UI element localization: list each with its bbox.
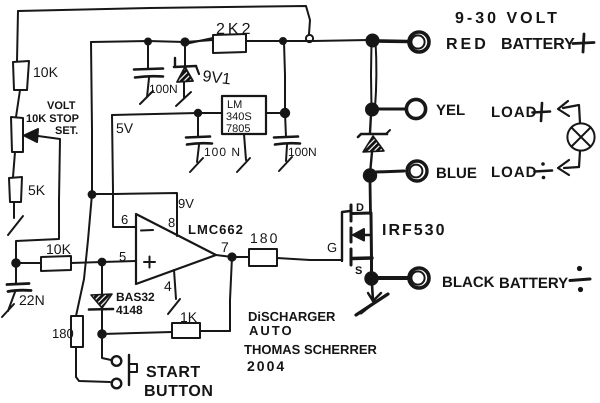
capacitor C 22N tail bbox=[8, 292, 15, 311]
svg-text:10K: 10K bbox=[33, 64, 59, 80]
capacitor C 100N (right) lead bbox=[285, 113, 286, 137]
capacitor C 100N (mid) plates bbox=[186, 137, 210, 138]
svg-text:1K: 1K bbox=[180, 309, 198, 325]
svg-text:VOLT: VOLT bbox=[47, 100, 76, 112]
svg-text:6: 6 bbox=[121, 212, 128, 227]
capacitor C 100N (right) tail bbox=[286, 145, 287, 161]
slash tail under 5K bbox=[8, 216, 23, 235]
svg-text:8: 8 bbox=[168, 215, 175, 230]
wire left 9V vertical bbox=[76, 42, 92, 316]
svg-text:4148: 4148 bbox=[116, 303, 143, 317]
diode D (bus) symbol bbox=[358, 134, 387, 137]
svg-text:2004: 2004 bbox=[247, 358, 286, 374]
capacitor C 100N (mid) lead bbox=[197, 113, 199, 137]
regulator U LM340S box bbox=[222, 96, 266, 134]
svg-text:IRF530: IRF530 bbox=[382, 222, 446, 239]
connector BLUE bbox=[407, 161, 427, 181]
start button actuator bbox=[128, 355, 130, 385]
connector RED bbox=[409, 32, 429, 52]
mosfet channel bars bbox=[350, 205, 353, 221]
wire gate vertical bbox=[342, 211, 350, 261]
resistor R 1K bbox=[172, 323, 200, 338]
start button terminal upper bbox=[112, 356, 122, 366]
wire bus top junction to RED bbox=[367, 35, 379, 47]
start button terminal lower bbox=[112, 379, 122, 389]
mosfet drain stub bbox=[352, 212, 371, 216]
wire 1K right lead bbox=[200, 330, 230, 332]
divide sign LOAD row bbox=[535, 171, 553, 172]
capacitor C 22N lead bbox=[15, 263, 17, 284]
node loop at 2K2 rail bbox=[306, 35, 313, 42]
svg-text:RED: RED bbox=[446, 36, 489, 53]
wire stub BLACK bbox=[377, 276, 408, 280]
svg-text:BLACK: BLACK bbox=[442, 274, 495, 291]
node dot BAS32 branch bbox=[99, 259, 106, 266]
wire 10K to pot bbox=[16, 90, 20, 117]
wire LM gnd lead bbox=[244, 134, 246, 160]
wire 9V branch to op-amp pin8 bbox=[92, 193, 177, 236]
svg-text:S: S bbox=[355, 265, 362, 277]
svg-text:LM: LM bbox=[227, 99, 242, 111]
svg-text:180: 180 bbox=[250, 230, 279, 246]
wire stub YEL bbox=[377, 108, 406, 111]
svg-text:BATTERY: BATTERY bbox=[501, 36, 575, 53]
node dot 9V branch bbox=[89, 191, 96, 198]
wire left outer vertical to 10K bbox=[17, 11, 18, 61]
svg-text:D: D bbox=[356, 202, 364, 214]
mosfet source stub bbox=[352, 256, 372, 260]
resistor R 180 (gate) bbox=[249, 249, 277, 266]
diode D BAS32 symbol bbox=[91, 294, 112, 308]
svg-text:START: START bbox=[146, 364, 201, 381]
pot wiper arrow bbox=[26, 135, 38, 136]
svg-text:10K: 10K bbox=[46, 241, 72, 257]
node dot BLUE bbox=[364, 169, 376, 181]
node dot x283 bbox=[280, 38, 286, 44]
svg-text:G: G bbox=[327, 240, 337, 255]
lamp arrow upper bbox=[563, 105, 580, 123]
plus sign LOAD row bbox=[533, 103, 551, 121]
node dot x185 bbox=[181, 38, 188, 45]
diode D BAS32 lead bbox=[101, 262, 103, 294]
svg-text:5: 5 bbox=[119, 249, 126, 264]
svg-text:9-30 VOLT: 9-30 VOLT bbox=[455, 10, 560, 27]
svg-text:BLUE: BLUE bbox=[436, 165, 477, 182]
node dot output bbox=[228, 253, 235, 260]
wire 2K2 right to bus bbox=[246, 40, 369, 41]
svg-text:YEL: YEL bbox=[436, 102, 465, 119]
svg-text:AUTO: AUTO bbox=[249, 323, 294, 338]
svg-text:4: 4 bbox=[164, 278, 172, 294]
capacitor C 100N (mid) tail bbox=[197, 145, 199, 162]
svg-text:9V1: 9V1 bbox=[202, 68, 232, 88]
svg-text:7805: 7805 bbox=[226, 123, 250, 135]
capacitor C 100N (first) plates bbox=[134, 69, 163, 70]
wire vertical 9V to LM out bbox=[284, 42, 285, 113]
wire mosfet channel to source node bbox=[370, 214, 374, 278]
svg-text:BUTTON: BUTTON bbox=[144, 383, 213, 400]
resistor R 5K bbox=[9, 177, 22, 202]
wire 2K2 overdraw bbox=[185, 38, 213, 44]
node dot 1K junction bbox=[98, 330, 106, 338]
connector BLACK bbox=[409, 268, 429, 288]
wire 180 to gate bbox=[277, 258, 342, 260]
connector YEL bbox=[406, 99, 425, 118]
svg-text:5K: 5K bbox=[28, 182, 46, 198]
svg-text:22N: 22N bbox=[19, 292, 45, 308]
wire stub RED bbox=[377, 39, 408, 43]
node dot 5V mid cap bbox=[195, 110, 201, 116]
svg-text:100N: 100N bbox=[288, 145, 317, 159]
zener tail bbox=[183, 82, 185, 98]
wire stub BLUE bbox=[376, 171, 404, 172]
plus sign RED row bbox=[573, 34, 594, 52]
svg-text:2K2: 2K2 bbox=[216, 21, 253, 38]
resistor R 10K (mid) bbox=[41, 256, 71, 271]
wire 5K tail bbox=[13, 202, 15, 218]
wire 1K left lead bbox=[102, 332, 172, 334]
op-amp U LMC662 triangle bbox=[136, 214, 216, 284]
svg-text:9V: 9V bbox=[178, 196, 194, 211]
zener D 9V1 symbol bbox=[174, 58, 176, 66]
op-amp minus symbol bbox=[141, 229, 153, 232]
capacitor C 100N tail bbox=[147, 78, 149, 97]
potentiometer 10K STOP bbox=[11, 117, 23, 152]
svg-text:THOMAS SCHERRER: THOMAS SCHERRER bbox=[244, 342, 378, 357]
node dot left junction bbox=[12, 259, 20, 267]
resistor R 10K (top left) bbox=[13, 61, 29, 90]
divide sign BATTERY row bbox=[570, 279, 590, 281]
svg-text:7: 7 bbox=[221, 239, 229, 255]
mosfet body arrow bbox=[360, 234, 371, 237]
wire 5V rail bbox=[112, 113, 222, 115]
wire to start button bbox=[102, 334, 111, 360]
svg-text:LOAD: LOAD bbox=[491, 164, 538, 181]
ground arrow at source bbox=[372, 284, 373, 301]
svg-text:180: 180 bbox=[52, 326, 74, 341]
capacitor C 22N plates bbox=[7, 284, 29, 285]
svg-text:SET.: SET. bbox=[55, 125, 78, 137]
wire 9V rail top (y=42) bbox=[91, 40, 213, 42]
node dot YEL bbox=[366, 104, 378, 116]
wire bus diode to BLUE bbox=[370, 152, 372, 174]
wire 5V corner down to pin6 bbox=[112, 115, 136, 227]
node dot source bbox=[365, 272, 377, 284]
wire bus YEL to diode bbox=[370, 114, 371, 133]
wire pin4 bbox=[174, 270, 176, 299]
svg-text:LMC662: LMC662 bbox=[188, 222, 244, 237]
wire wiper to lower rail bbox=[16, 136, 60, 262]
wire bus double RED-YEL bbox=[370, 41, 373, 108]
wire LM out bbox=[266, 112, 285, 114]
capacitor C 100N (first) lead bbox=[147, 42, 149, 69]
resistor R 180 (bottom) bbox=[71, 316, 83, 347]
wire pot to 5K bbox=[13, 152, 15, 177]
op-amp plus symbol bbox=[144, 257, 155, 268]
wire 10K to op-amp plus bbox=[71, 261, 136, 263]
svg-text:BATTERY: BATTERY bbox=[499, 275, 568, 292]
svg-text:5V: 5V bbox=[116, 120, 134, 136]
diode D BAS32 lower lead bbox=[101, 309, 103, 334]
lamp symbol bbox=[567, 123, 594, 150]
zener D 9V1 lead bbox=[184, 42, 186, 66]
wire output bbox=[216, 255, 249, 257]
wire top outer loop bbox=[18, 6, 310, 34]
svg-text:100 N: 100 N bbox=[204, 145, 241, 159]
wire feedback vertical bbox=[230, 257, 232, 331]
svg-text:BAS32: BAS32 bbox=[116, 290, 155, 304]
wire 180 bottom to button bbox=[76, 347, 110, 382]
capacitor C 100N (right) plates bbox=[274, 137, 298, 138]
wire +input rail bbox=[16, 262, 41, 264]
svg-text:10K STOP: 10K STOP bbox=[26, 113, 79, 125]
resistor R 2K2 bbox=[213, 34, 246, 53]
svg-text:340S: 340S bbox=[226, 111, 252, 123]
node dot x148 bbox=[145, 39, 151, 45]
svg-text:100N: 100N bbox=[149, 82, 178, 96]
lamp arrow lower bbox=[564, 151, 580, 168]
svg-text:DiSCHARGER: DiSCHARGER bbox=[248, 309, 336, 324]
wire bus BLUE to drain bbox=[369, 181, 372, 214]
node dot LM out bbox=[281, 109, 289, 117]
svg-text:LOAD: LOAD bbox=[491, 104, 538, 121]
